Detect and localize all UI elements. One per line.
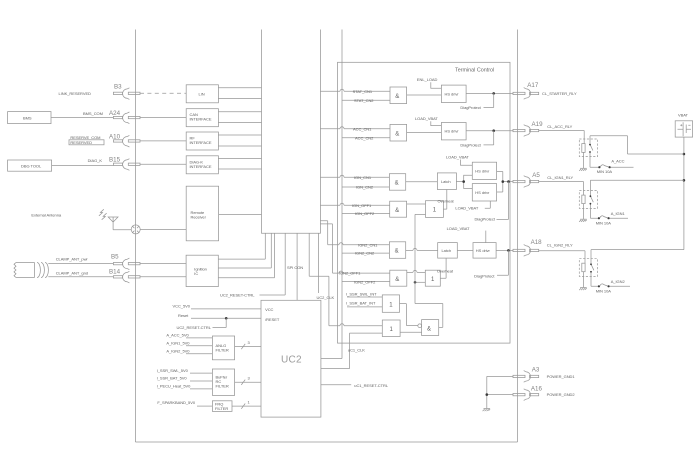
bus freq filter to UC2 (1) bbox=[232, 404, 261, 409]
wire IGN_OFF2 from UC2 net bbox=[342, 213, 390, 215]
wire DIAG to U1 (2) bbox=[218, 159, 261, 170]
wire K3 contact to load bbox=[591, 276, 598, 286]
block BMS source bbox=[8, 112, 51, 124]
node out3 junction bbox=[507, 180, 510, 183]
wire AND4 to OR4 bbox=[407, 203, 426, 205]
svg-text:LOAD_VBAT: LOAD_VBAT bbox=[415, 116, 438, 121]
svg-text:&: & bbox=[395, 249, 399, 255]
wire A24 to CAN interface bbox=[140, 117, 186, 119]
node out5 junction bbox=[507, 249, 510, 252]
svg-text:DiagProtect: DiagProtect bbox=[460, 143, 481, 148]
connector A5 bbox=[513, 176, 539, 188]
svg-text:HS drivr: HS drivr bbox=[476, 248, 491, 253]
wire AND2 to HS2 bbox=[407, 131, 442, 133]
wire A18 to IGN2 relay coil bbox=[539, 251, 585, 263]
svg-text:A_IGN1: A_IGN1 bbox=[611, 211, 626, 216]
bus buffer filter to UC2 (3) bbox=[235, 380, 261, 385]
relay K2 coil to ground bbox=[582, 204, 584, 220]
connector A24 bbox=[113, 112, 140, 124]
svg-text:F_SPARKBAND_5V0: F_SPARKBAND_5V0 bbox=[157, 400, 195, 405]
Terminal Control block box bbox=[338, 62, 511, 343]
svg-text:I_PECU_Heat_5V0: I_PECU_Heat_5V0 bbox=[157, 384, 192, 389]
wire A19 to ACC relay coil bbox=[539, 131, 585, 144]
wire diag hook row3 bbox=[497, 182, 509, 220]
gate AND row1 bbox=[390, 87, 407, 104]
node reset net junction row6 bbox=[414, 281, 417, 284]
svg-text:UC2: UC2 bbox=[281, 355, 302, 366]
svg-text:HS drivr: HS drivr bbox=[445, 129, 460, 134]
wire K2 contact to load bbox=[590, 208, 598, 218]
svg-text:A5: A5 bbox=[532, 172, 540, 179]
svg-text:BMS: BMS bbox=[23, 116, 32, 121]
block Ignition IC bbox=[186, 255, 218, 286]
block Remote Receiver bbox=[186, 186, 218, 241]
block LIN interface bbox=[186, 85, 218, 103]
svg-text:External Antenna: External Antenna bbox=[31, 212, 61, 217]
wire receiver to U1 bbox=[219, 213, 262, 215]
wire UC2_RESET-CTRL from U1 bbox=[260, 233, 286, 295]
svg-text:DBG TOOL: DBG TOOL bbox=[21, 164, 42, 169]
connector A17 bbox=[513, 88, 539, 100]
wire AND1 to HS1 bbox=[407, 94, 442, 96]
splice ACC load bbox=[598, 165, 633, 169]
relay K1 coil to ground bbox=[582, 152, 584, 168]
svg-text:SPI CON: SPI CON bbox=[287, 265, 303, 270]
wire IGN_CN2 from UC2 net bbox=[342, 186, 389, 188]
gate AND row4 bbox=[390, 201, 407, 217]
svg-text:A19: A19 bbox=[532, 121, 544, 128]
wire HS2 out to A19 bbox=[466, 130, 513, 132]
block analog filter bbox=[212, 336, 234, 360]
gate OR clock monitor bbox=[382, 320, 400, 337]
svg-text:VCC: VCC bbox=[265, 307, 273, 312]
svg-text:IGN2_OFF2: IGN2_OFF2 bbox=[354, 279, 376, 284]
wire LOAD_VBAT hook row3 bbox=[461, 160, 473, 166]
block HS driver row2 bbox=[441, 123, 466, 140]
wire ACC_CN2 from UC2 net bbox=[342, 137, 390, 139]
wire POWER_GND join bbox=[487, 376, 513, 408]
svg-text:&: & bbox=[395, 277, 399, 283]
svg-text:IC: IC bbox=[194, 271, 198, 276]
wire ignition IC out1 to U1 bbox=[218, 233, 265, 259]
node VBAT tap2 bbox=[683, 179, 686, 182]
wire B3 to LIN (dashed) bbox=[140, 92, 186, 94]
wire UC2 enable vertical net bbox=[321, 30, 342, 359]
ECU enclosure bottom edge bbox=[135, 441, 517, 443]
block DIAG-K interface bbox=[186, 156, 218, 174]
wire LOAD_VBAT hook row5 bbox=[485, 231, 487, 243]
ground relay K3 bbox=[580, 287, 587, 289]
svg-text:CL_STARTER_RLY: CL_STARTER_RLY bbox=[542, 91, 577, 96]
MCU U1 box bbox=[262, 30, 321, 234]
svg-text:&: & bbox=[395, 94, 399, 100]
wires analog inputs to filter bbox=[186, 338, 212, 354]
node VBAT tap1 bbox=[683, 153, 686, 156]
svg-text:B3: B3 bbox=[114, 83, 122, 90]
wire LIN to U1 (2) bbox=[218, 88, 261, 99]
svg-text:DIAG_K: DIAG_K bbox=[88, 158, 103, 163]
svg-text:CL_IGN1_RLY: CL_IGN1_RLY bbox=[547, 175, 573, 180]
wire IGN2_CN1 from U1 bbox=[320, 221, 389, 245]
block HS driver row5 bbox=[473, 243, 496, 259]
svg-text:I_SSR_SWL_5V0: I_SSR_SWL_5V0 bbox=[157, 368, 189, 373]
ECU enclosure right edge bbox=[517, 30, 519, 443]
svg-text:I_SSR_SWL_INT: I_SSR_SWL_INT bbox=[346, 291, 377, 296]
svg-text:Terminal Control: Terminal Control bbox=[455, 68, 494, 74]
svg-text:IGN_CN1: IGN_CN1 bbox=[354, 175, 372, 180]
svg-text:A_IGN2: A_IGN2 bbox=[611, 279, 626, 284]
svg-text:IGN_OFF1: IGN_OFF1 bbox=[352, 203, 372, 208]
svg-text:STAT_CN2: STAT_CN2 bbox=[354, 98, 374, 103]
wire ENL_LOAD hook bbox=[431, 82, 442, 88]
svg-text:VCC_5V0: VCC_5V0 bbox=[173, 304, 191, 309]
gate AND row6 bbox=[390, 270, 407, 286]
wire ignition IC out3 to U1 bbox=[218, 233, 274, 278]
wire OR4 input2 from reset net bbox=[415, 213, 426, 215]
wire clk feed into TC to OR8 bbox=[329, 324, 382, 326]
svg-text:IGN2_CN2: IGN2_CN2 bbox=[355, 251, 375, 256]
wire A5 to IGN1 relay coil bbox=[539, 182, 584, 196]
svg-text:LOAD_VBAT: LOAD_VBAT bbox=[447, 226, 470, 231]
block Latch row3 bbox=[437, 173, 456, 190]
relay K3 coil bbox=[582, 263, 585, 272]
wire IGN2_OFF2 from UC2 net bbox=[342, 281, 390, 283]
wire IGN_CN1 from U1 bbox=[320, 175, 389, 177]
relay K1 coil bbox=[582, 144, 585, 153]
block Latch row5 bbox=[438, 243, 458, 259]
wires SSR INT to OR7 bbox=[347, 297, 382, 307]
connector B5 bbox=[113, 258, 140, 270]
wire CAN to U1 (2) bbox=[218, 112, 261, 123]
bus analog filter to UC2 (3) bbox=[235, 344, 261, 349]
relay K2 IGN1: housing bbox=[579, 191, 597, 209]
wire A10 to RF interface bbox=[140, 140, 186, 142]
svg-text:I_SSR_BAT_5V0: I_SSR_BAT_5V0 bbox=[157, 376, 188, 381]
wire OR8 out to NAND input2 bbox=[400, 331, 422, 333]
ECU enclosure left edge bbox=[134, 30, 136, 443]
svg-text:MIN 10A: MIN 10A bbox=[596, 221, 612, 226]
wire B14 to ignition IC bbox=[140, 276, 186, 278]
svg-text:A17: A17 bbox=[527, 82, 539, 89]
wire diag hook row5 bbox=[497, 250, 508, 275]
wire ACC_CN1 from U1 bbox=[320, 127, 390, 129]
svg-text:IGN2_OFF1: IGN2_OFF1 bbox=[339, 271, 361, 276]
block HS driver row1 bbox=[441, 85, 466, 102]
svg-text:B15: B15 bbox=[109, 157, 121, 164]
svg-text:B14: B14 bbox=[109, 268, 121, 275]
wire UC2_RESET-CTRL hook to reset bbox=[213, 318, 227, 327]
node out2 junction bbox=[492, 129, 495, 132]
svg-text:B5: B5 bbox=[111, 254, 119, 261]
connector A18 bbox=[513, 245, 539, 257]
gate AND row5 bbox=[389, 242, 405, 258]
block HS driver row3a bbox=[472, 162, 496, 179]
connector A19 bbox=[513, 125, 539, 137]
svg-text:FILTER: FILTER bbox=[216, 348, 229, 353]
svg-text:I_SSR_BAT_INT: I_SSR_BAT_INT bbox=[346, 301, 376, 306]
svg-text:uC1_CLK: uC1_CLK bbox=[348, 348, 365, 353]
gate NAND watchdog bbox=[418, 320, 439, 336]
ground relay K1 bbox=[580, 167, 587, 169]
svg-text:DiagProtect: DiagProtect bbox=[460, 105, 481, 110]
wire reset distribution vertical bbox=[415, 214, 443, 327]
svg-text:A_ACC_5V0: A_ACC_5V0 bbox=[166, 333, 189, 338]
gate AND row3 bbox=[389, 174, 405, 191]
MCU U2 (UC2) box bbox=[261, 300, 321, 417]
svg-text:A16: A16 bbox=[531, 386, 543, 393]
svg-text:POWER_GND2: POWER_GND2 bbox=[547, 392, 576, 397]
wire VBAT bus bbox=[683, 137, 685, 250]
connector A10 bbox=[113, 135, 140, 147]
svg-text:DiagProtect: DiagProtect bbox=[474, 273, 495, 278]
ground relay K2 bbox=[580, 218, 587, 220]
relay K3 contact bbox=[591, 259, 594, 277]
svg-text:/RESET: /RESET bbox=[265, 317, 280, 322]
wire K1 contact to load bbox=[590, 157, 599, 168]
svg-text:Latch: Latch bbox=[441, 179, 451, 184]
svg-text:LOAD_VBAT: LOAD_VBAT bbox=[455, 206, 478, 211]
wire IGN2_CN2 from UC2 net bbox=[342, 252, 389, 254]
svg-text:INTERFACE: INTERFACE bbox=[190, 164, 212, 169]
svg-text:FILTER: FILTER bbox=[216, 384, 229, 389]
svg-text:INTERFACE: INTERFACE bbox=[190, 140, 212, 145]
relay K3 IGN2: housing bbox=[579, 259, 597, 277]
svg-text:IGN_OFF2: IGN_OFF2 bbox=[355, 211, 375, 216]
wire K1 contact to VBAT bbox=[590, 136, 684, 154]
wire U1 clk feed down to watchdog gate bbox=[309, 233, 329, 326]
svg-text:CL_IGN2_RLY: CL_IGN2_RLY bbox=[547, 243, 573, 248]
svg-text:MIN 10A: MIN 10A bbox=[596, 289, 612, 294]
wire diag hook row2 bbox=[484, 131, 494, 145]
battery VBAT box bbox=[675, 121, 692, 137]
wire latch5 to HS5 bbox=[457, 249, 473, 251]
wire latch out split bbox=[456, 175, 472, 188]
wire VCC_5V0 to UC2 bbox=[191, 308, 261, 310]
svg-text:&: & bbox=[395, 131, 399, 137]
svg-text:LIN: LIN bbox=[199, 91, 205, 96]
wire ignition IC out2 to U1 bbox=[218, 233, 271, 268]
wire LOAD_VBAT hook row2 bbox=[431, 121, 442, 125]
svg-text:CLAMP_ANT_pwr: CLAMP_ANT_pwr bbox=[56, 256, 89, 261]
gate OR internal fail bbox=[382, 295, 399, 312]
block freq filter bbox=[212, 401, 232, 412]
block buffer RC filter bbox=[212, 369, 234, 395]
node join3 bbox=[502, 180, 505, 183]
wire VBAT to IGN1 contact bbox=[590, 180, 684, 190]
svg-text:MIN 10A: MIN 10A bbox=[597, 169, 613, 174]
wire VBAT to IGN2 contact bbox=[591, 250, 684, 259]
svg-text:BMS_COM: BMS_COM bbox=[83, 111, 103, 116]
relay K3 coil to ground bbox=[582, 272, 584, 288]
svg-text:UC2_CLK: UC2_CLK bbox=[317, 295, 335, 300]
svg-text:UC2_RESET-CTRL: UC2_RESET-CTRL bbox=[220, 292, 255, 297]
wire RF to U1 (2) bbox=[218, 135, 261, 146]
wire HS5 out to A18 bbox=[496, 249, 513, 251]
wire feedthrough to receiver bbox=[140, 228, 186, 230]
svg-text:A24: A24 bbox=[109, 110, 121, 117]
wire UC2 right pin1 to enable net bbox=[321, 333, 350, 369]
coax cable stub bbox=[14, 263, 48, 278]
svg-text:POWER_GND1: POWER_GND1 bbox=[547, 374, 576, 379]
connector B14 bbox=[113, 271, 140, 283]
wire HS1 out to A17 bbox=[466, 92, 513, 94]
svg-text:RESERVED: RESERVED bbox=[70, 140, 92, 145]
wire UC2_CLK stub from U1 bbox=[317, 233, 319, 293]
wire AND5 to latch5 bbox=[406, 248, 438, 250]
svg-text:Latch: Latch bbox=[442, 248, 452, 253]
svg-text:IGN_CN2: IGN_CN2 bbox=[356, 185, 374, 190]
svg-text:uC1_RESET-CTRL: uC1_RESET-CTRL bbox=[354, 383, 389, 388]
ground power gnd bbox=[484, 408, 491, 410]
svg-text:ACC_CN2: ACC_CN2 bbox=[355, 135, 374, 140]
wire coax pwr to B5 bbox=[48, 263, 113, 265]
connector B15 bbox=[113, 159, 140, 171]
relay K2 contact bbox=[590, 191, 593, 209]
svg-text:ACC_CN1: ACC_CN1 bbox=[353, 126, 372, 131]
wire B5 to ignition IC bbox=[140, 263, 186, 265]
svg-text:HS drivr: HS drivr bbox=[445, 91, 460, 96]
svg-text:Reset: Reset bbox=[178, 313, 189, 318]
relay K1 contact bbox=[590, 139, 593, 157]
wire AND3 to latch bbox=[406, 181, 438, 183]
block HS driver row3b bbox=[472, 184, 496, 201]
wire BMS to connector bbox=[51, 117, 113, 119]
svg-text:A_ACC: A_ACC bbox=[611, 159, 624, 164]
splice IGN1 load bbox=[598, 216, 628, 220]
wire IGN_OFF1 from U1 bbox=[320, 203, 389, 205]
coax feedthrough connector bbox=[131, 225, 140, 234]
svg-text:&: & bbox=[395, 181, 399, 187]
wire OR7 out to NAND bbox=[400, 304, 418, 326]
svg-text:LINK_RESERVED: LINK_RESERVED bbox=[59, 91, 92, 96]
signal uC1_RESET-CTRL stub bbox=[321, 384, 351, 386]
svg-text:&: & bbox=[427, 326, 431, 332]
node reset junction bbox=[225, 317, 228, 320]
wire freq input to filter bbox=[197, 405, 212, 407]
relay K2 coil bbox=[582, 195, 585, 204]
svg-text:Overheat: Overheat bbox=[438, 199, 455, 204]
node latch out junction bbox=[462, 180, 465, 183]
wire diag hook row1 bbox=[484, 93, 494, 107]
wire STAT_CN1 from U1 bbox=[320, 89, 390, 91]
wire IGN2_OFF1 from U1 bbox=[320, 224, 389, 273]
svg-text:HS drivr: HS drivr bbox=[475, 190, 490, 195]
svg-text:INTERFACE: INTERFACE bbox=[190, 117, 212, 122]
svg-text:CL_ACC_RLY: CL_ACC_RLY bbox=[547, 124, 572, 129]
relay K1 ACC: housing bbox=[579, 139, 597, 157]
svg-text:&: & bbox=[395, 208, 399, 214]
svg-text:IGN2_CN1: IGN2_CN1 bbox=[358, 242, 378, 247]
wire HS3a HS3b outputs join bbox=[497, 172, 513, 193]
svg-text:Overheat: Overheat bbox=[437, 268, 454, 273]
connector A3 bbox=[513, 371, 539, 383]
svg-text:A18: A18 bbox=[531, 239, 543, 246]
gate OR row6 bbox=[425, 270, 440, 286]
node out1 junction bbox=[492, 92, 495, 95]
wire latch5 reset from OR6 bbox=[440, 258, 446, 278]
block DBG TOOL source bbox=[8, 160, 52, 171]
wire OR4 out to latch3 reset bbox=[443, 190, 446, 210]
wire B15 to DIAG interface bbox=[140, 163, 186, 165]
block CAN interface bbox=[186, 109, 218, 127]
wires current sense to buffer filter bbox=[190, 373, 212, 389]
svg-text:ENL_LOAD: ENL_LOAD bbox=[417, 77, 438, 82]
wire antenna to feedthrough bbox=[113, 229, 131, 231]
svg-text:FILTER: FILTER bbox=[215, 406, 228, 411]
wire DBG TOOL to connector bbox=[52, 165, 114, 167]
splice IGN2 load bbox=[598, 284, 630, 288]
svg-text:A_IGN1_5V0: A_IGN1_5V0 bbox=[166, 341, 190, 346]
svg-text:UC2_RESET-CTRL: UC2_RESET-CTRL bbox=[177, 325, 212, 330]
wire Reset to UC2 bbox=[191, 317, 261, 319]
svg-text:HS drivr: HS drivr bbox=[475, 168, 490, 173]
svg-text:DiagProtect: DiagProtect bbox=[475, 216, 496, 221]
antenna symbol bbox=[99, 209, 118, 230]
gate AND row2 bbox=[390, 124, 407, 141]
svg-text:A_IGN2_5V0: A_IGN2_5V0 bbox=[166, 349, 190, 354]
node gnd junction bbox=[486, 393, 489, 396]
wire coax gnd to B14 bbox=[48, 276, 113, 278]
svg-text:Receiver: Receiver bbox=[191, 215, 207, 220]
wire LOAD_VBAT hook row3 lower bbox=[485, 201, 491, 208]
wire SPI bus U1 to UC2 bbox=[296, 233, 298, 300]
connector B3 bbox=[113, 88, 140, 100]
svg-text:CLAMP_ANT_gnd: CLAMP_ANT_gnd bbox=[56, 270, 88, 275]
wire OR6 input2 from reset net bbox=[415, 281, 425, 283]
svg-text:VBAT: VBAT bbox=[678, 113, 689, 118]
svg-text:STAT_CN1: STAT_CN1 bbox=[353, 89, 373, 94]
connector A16 bbox=[513, 389, 539, 401]
gate OR row4 bbox=[426, 201, 444, 218]
svg-text:A3: A3 bbox=[532, 366, 540, 373]
wire AND6 to OR6 bbox=[407, 270, 426, 272]
wire STAT_CN2 from UC2 net bbox=[342, 99, 390, 101]
svg-text:LOAD_VBAT: LOAD_VBAT bbox=[446, 154, 469, 159]
block RF interface bbox=[186, 132, 218, 150]
wire uC1_CLK into OR8 bbox=[350, 332, 383, 334]
